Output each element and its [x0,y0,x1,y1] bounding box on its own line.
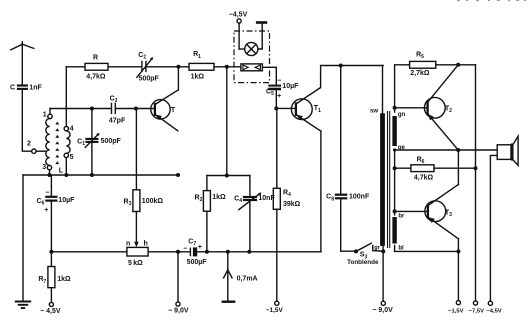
svg-text:−: − [45,189,49,196]
wire speaker bottom lead [490,155,497,300]
wire base line right [115,108,155,110]
svg-text:5: 5 [70,154,74,161]
node T emitter [176,173,180,177]
svg-text:0,7mA: 0,7mA [237,276,258,283]
terminal -7,5V [469,301,484,315]
wire gn to T2 base [395,107,428,109]
lamp [239,24,262,56]
svg-text:1: 1 [43,112,47,119]
node T2 collector [456,63,460,67]
wire base line left [50,108,111,110]
capacitor C3 47pF [109,96,126,125]
svg-text:10µF: 10µF [282,83,299,90]
probe bar [256,21,267,24]
svg-text:−4,5V: −4,5V [486,308,501,314]
transformer Tr [370,108,406,251]
capacitor C 1nF [10,85,43,92]
node C8 tap [339,64,343,68]
wire box to C5 [262,67,276,84]
node speaker junction [456,148,460,152]
node C1 bottom [90,173,94,177]
resistor R3 100k [124,109,164,212]
node R6 right [474,166,478,170]
resistor R 4.7k [85,54,108,80]
svg-text:gn: gn [398,112,406,118]
wire C8 corner to switch [341,250,356,252]
svg-text:5 kΩ: 5 kΩ [128,260,143,267]
switch S3 Tonblende [347,243,383,266]
wire ge to br vertical [394,150,396,215]
node collector [176,65,180,69]
capacitor C7 500uF [183,239,207,267]
resistor R5 2.7k [410,51,436,77]
wire tap4 riser [65,67,67,127]
capacitor C2 500pF variable [137,52,160,82]
transistor T3 [425,185,459,239]
node br [393,209,397,213]
terminal -4,5V top [229,12,248,49]
transistor T2 [424,65,458,150]
node ge [393,148,396,151]
node -9V junction [176,250,180,254]
resistor R4 39k [273,108,300,301]
potentiometer 5k [126,212,148,267]
terminal -9,0V right [372,301,393,314]
node bl T3 emitter [456,249,460,253]
svg-text:Tonblende: Tonblende [347,259,379,266]
resistor R6 4.7k [395,156,476,181]
transistor T [151,90,179,131]
svg-text:39kΩ: 39kΩ [283,201,301,208]
terminal -4,5V right [486,301,501,314]
svg-text:− 9,0V: − 9,0V [372,307,393,314]
wire T3 collector riser [457,150,459,185]
wire antenna lead [21,44,23,85]
node tap3 [48,173,52,177]
svg-text:3: 3 [42,164,46,171]
coil L [27,112,74,175]
wire -9V drop [177,252,179,302]
wire drop to -1,5V [457,251,459,300]
svg-text:−4,5V: −4,5V [229,12,248,19]
speaker LS [497,136,518,165]
resistor R1 1k [189,51,214,80]
terminal -1,5V middle [266,301,284,314]
node R6 left [393,166,397,170]
svg-text:500pF: 500pF [101,138,122,145]
terminal -9,0V left [168,302,189,315]
wire primary bottom lead [382,246,384,301]
svg-text:1kΩ: 1kΩ [212,194,226,201]
node C4 bottom [247,250,251,254]
svg-text:10µF: 10µF [58,197,75,204]
svg-text:gr: gr [374,245,380,251]
wire T3 emitter drop [457,239,459,252]
terminal -1,5V right [448,301,463,315]
svg-text:br: br [398,214,405,220]
wire tap1 riser [49,109,51,115]
wire ge line to speaker [395,149,498,151]
svg-text:h: h [143,241,147,248]
wire tap5 drop [65,158,67,175]
wire R2 C4 rail [207,175,250,177]
resistor R2 1k [195,176,226,252]
svg-text:−: − [183,246,187,253]
svg-text:−1,5V: −1,5V [266,307,284,314]
svg-text:1nF: 1nF [29,85,42,92]
svg-text:2: 2 [27,141,31,148]
wire bottom rail [51,251,321,253]
svg-text:−1,5V: −1,5V [448,308,463,314]
ground [15,302,31,309]
transistor T1 [291,88,321,132]
svg-text:100nF: 100nF [349,193,370,200]
capacitor C4 10nF variable [234,176,275,252]
node R3 top [134,107,138,111]
svg-text:10nF: 10nF [258,195,275,202]
node C1 top [90,107,94,111]
wire T collector riser [177,67,179,90]
wire C5 to T1 base [275,90,277,108]
node gn [393,106,397,110]
svg-text:−: − [277,78,281,85]
svg-text:4,7kΩ: 4,7kΩ [86,74,106,81]
svg-text:L: L [59,167,64,174]
svg-text:− 9,0V: − 9,0V [168,308,189,315]
node T1 base [274,106,278,110]
svg-text:C: C [10,85,15,92]
svg-text:4,7kΩ: 4,7kΩ [414,175,434,182]
svg-text:R: R [93,54,98,61]
terminal -4,5V bottom left [40,302,61,315]
wire T1 emitter drop [320,131,322,252]
svg-text:1kΩ: 1kΩ [191,73,205,80]
svg-text:n: n [126,241,130,248]
svg-text:4: 4 [70,125,74,132]
wire base to T1 [276,107,296,109]
wire T1 collector riser and rail [321,66,384,88]
svg-text:−7,5V: −7,5V [469,308,484,314]
resistor R7 1k [38,252,71,302]
capacitor C1 500pF variable [77,109,121,176]
svg-text:− 4,5V: − 4,5V [40,308,61,315]
svg-text:500µF: 500µF [187,259,208,266]
indicator rectangle with triangles [241,64,263,71]
svg-text:47pF: 47pF [109,118,126,125]
current arrow 0,7mA [222,252,258,302]
wire bus left drop [22,175,24,301]
wire tap3 drop [49,170,51,175]
wire -7,5V vertical [475,65,477,300]
capacitor C6 10uF [37,175,76,252]
dashed assembly box [234,31,270,83]
wire C to coil tap 2 [22,90,31,151]
node R2 bottom [205,250,209,254]
wire bl line [394,245,396,251]
wire drop to R2 C4 rail [226,67,228,176]
svg-text:1kΩ: 1kΩ [57,276,71,283]
wire primary top lead [382,66,384,114]
node R1 output [225,65,229,69]
wire br to T3 base [395,210,428,212]
svg-text:100kΩ: 100kΩ [142,198,164,205]
svg-text:+: + [277,93,281,100]
capacitor C8 100nF [326,66,370,252]
node primary bottom [381,249,385,253]
wire R1 to box [214,66,241,68]
svg-text:500pF: 500pF [139,75,160,82]
antenna [11,42,34,50]
svg-text:sw: sw [370,108,378,114]
svg-text:+: + [44,207,48,214]
svg-text:T: T [171,107,176,114]
svg-text:bl: bl [398,245,404,251]
wire gn riser to R5 [395,65,410,112]
wire feedback row [66,66,189,68]
node C6 R7 junction [49,250,53,254]
wire R5 to corner [436,64,476,66]
svg-text:2,7kΩ: 2,7kΩ [410,70,430,77]
capacitor C5 10uF [266,78,299,101]
node rail drop [225,174,229,178]
node tap5 [64,173,68,177]
svg-text:+: + [198,244,202,251]
node 0,7mA branch [226,250,230,254]
wire bl horizontal [395,250,459,252]
ground bus [23,174,178,176]
